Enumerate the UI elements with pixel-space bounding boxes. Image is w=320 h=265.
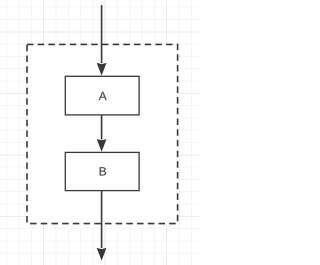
- wire: arrow A to B: [101, 115, 103, 139]
- process box B: [65, 152, 139, 190]
- arrowhead into B: [97, 139, 107, 152]
- dashed container rect: [27, 44, 178, 223]
- process box A: [65, 76, 139, 115]
- label A: [99, 92, 107, 100]
- arrowhead into A: [97, 63, 107, 76]
- wire: arrow into A from top: [101, 5, 103, 63]
- canvas background: [0, 0, 199, 265]
- label B: [100, 167, 106, 175]
- container group (dashed): [27, 44, 178, 223]
- wire: arrow out of B to bottom: [101, 191, 103, 249]
- arrowhead at bottom exit: [97, 248, 107, 261]
